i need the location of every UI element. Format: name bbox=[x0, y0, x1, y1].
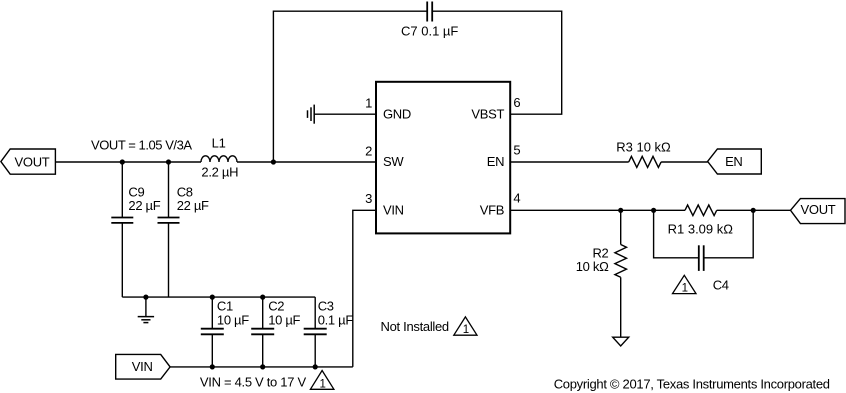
note triangle 1 (not installed) bbox=[454, 317, 477, 336]
capacitor C4 bbox=[699, 245, 729, 292]
inductor L1 bbox=[201, 136, 238, 180]
wire GND pin stub bbox=[314, 113, 376, 115]
svg-text:GND: GND bbox=[383, 106, 411, 121]
junction C2 top bbox=[260, 295, 265, 300]
svg-text:6: 6 bbox=[513, 95, 520, 110]
wire C7 right riser to VBST bbox=[432, 11, 562, 114]
svg-text:EN: EN bbox=[487, 154, 504, 169]
port flag VIN bbox=[116, 354, 170, 379]
capacitor C4 loop right bbox=[704, 210, 754, 257]
svg-text:VOUT: VOUT bbox=[801, 202, 836, 217]
capacitor C9 bbox=[111, 162, 160, 297]
junction SW / C7 riser bbox=[271, 159, 276, 164]
junction R1/C4 right bbox=[751, 208, 756, 213]
svg-text:3: 3 bbox=[365, 191, 372, 206]
resistor R2 bbox=[576, 210, 627, 337]
svg-text:C4: C4 bbox=[713, 278, 729, 293]
wire R3 to EN flag bbox=[661, 161, 708, 163]
svg-text:VOUT = 1.05 V/3A: VOUT = 1.05 V/3A bbox=[91, 138, 192, 153]
port flag EN bbox=[708, 149, 762, 174]
resistor R3 bbox=[616, 139, 671, 167]
wire VFB pin to R1 bbox=[510, 209, 685, 211]
resistor R1 bbox=[668, 205, 734, 237]
capacitor C4 loop left bbox=[654, 210, 699, 257]
junction C1 bottom bbox=[210, 364, 215, 369]
capacitor C2 bbox=[251, 297, 300, 367]
svg-text:2: 2 bbox=[365, 143, 372, 158]
junction R2 tap bbox=[618, 208, 623, 213]
svg-text:R1 3.09 kΩ: R1 3.09 kΩ bbox=[668, 222, 734, 237]
svg-text:10 µF: 10 µF bbox=[217, 312, 249, 327]
svg-text:VOUT: VOUT bbox=[15, 154, 50, 169]
svg-text:VBST: VBST bbox=[471, 106, 504, 121]
svg-text:1: 1 bbox=[463, 324, 469, 336]
junction C9 tap bbox=[120, 159, 125, 164]
capacitor C8 bbox=[158, 162, 210, 297]
svg-text:5: 5 bbox=[513, 143, 520, 158]
wire VIN rail bbox=[170, 366, 353, 368]
ground (chassis) at GND pin bbox=[308, 105, 315, 124]
note triangle 1 (VIN) bbox=[310, 371, 334, 391]
svg-text:22 µF: 22 µF bbox=[177, 198, 209, 213]
junction C2 bottom bbox=[260, 364, 265, 369]
IC U1 bbox=[376, 82, 510, 234]
junction ground tap bbox=[143, 295, 148, 300]
svg-text:1: 1 bbox=[682, 283, 688, 295]
wire EN pin to R3 bbox=[510, 161, 629, 163]
junction R1/C4 left bbox=[651, 208, 656, 213]
svg-text:1: 1 bbox=[365, 96, 372, 111]
capacitor C7 bbox=[401, 2, 458, 39]
svg-text:2.2 µH: 2.2 µH bbox=[201, 165, 238, 180]
svg-text:R3 10 kΩ: R3 10 kΩ bbox=[616, 139, 671, 154]
note triangle 1 (C4) bbox=[673, 275, 697, 294]
svg-text:VFB: VFB bbox=[480, 203, 504, 218]
junction C3 bottom bbox=[313, 364, 318, 369]
port flag VOUT (right) bbox=[791, 199, 846, 224]
wire VIN pin riser bbox=[353, 210, 376, 367]
junction C1 top bbox=[210, 295, 215, 300]
svg-text:VIN: VIN bbox=[132, 359, 153, 374]
svg-text:C7 0.1 µF: C7 0.1 µF bbox=[401, 23, 458, 38]
svg-text:0.1 µF: 0.1 µF bbox=[318, 312, 354, 327]
svg-text:SW: SW bbox=[383, 154, 404, 169]
svg-text:10 kΩ: 10 kΩ bbox=[576, 259, 609, 274]
junction C8 tap bbox=[166, 159, 171, 164]
svg-text:VIN: VIN bbox=[383, 203, 404, 218]
wire C7 left riser bbox=[273, 11, 427, 162]
svg-text:1: 1 bbox=[319, 378, 325, 390]
svg-text:Not Installed: Not Installed bbox=[381, 319, 449, 334]
svg-text:EN: EN bbox=[725, 154, 742, 169]
ground (power) under R2 bbox=[613, 337, 629, 346]
wire VOUT to L1 bbox=[55, 161, 201, 163]
svg-text:VIN = 4.5 V to 17 V: VIN = 4.5 V to 17 V bbox=[200, 375, 307, 390]
svg-text:22 µF: 22 µF bbox=[128, 198, 160, 213]
svg-text:10 µF: 10 µF bbox=[268, 312, 300, 327]
ground rail wire bbox=[122, 296, 315, 298]
wire L1 to SW pin bbox=[237, 161, 376, 163]
svg-text:L1: L1 bbox=[212, 136, 226, 151]
capacitor C1 bbox=[201, 297, 249, 367]
svg-text:4: 4 bbox=[513, 191, 520, 206]
wire R1 to VOUT flag bbox=[717, 209, 791, 211]
ground (earth) symbol bbox=[138, 297, 154, 323]
capacitor C3 bbox=[304, 297, 354, 367]
svg-text:Copyright © 2017, Texas Instru: Copyright © 2017, Texas Instruments Inco… bbox=[554, 376, 830, 391]
port flag VOUT (left) bbox=[1, 149, 56, 174]
